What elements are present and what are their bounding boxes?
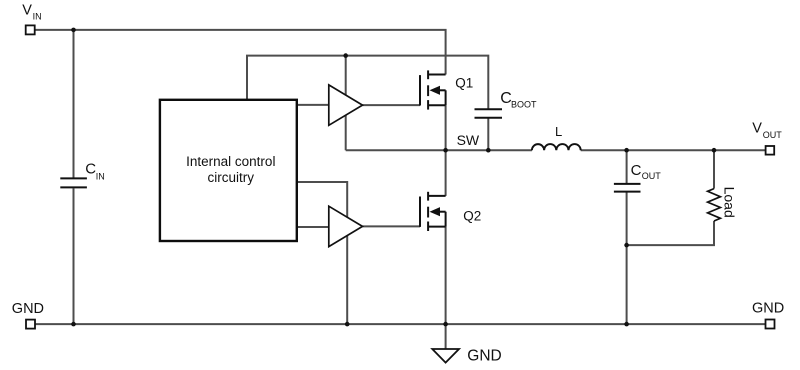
node ground rail driver junction: [345, 322, 350, 327]
svg-text:GND: GND: [12, 301, 44, 317]
wire lower driver input: [297, 226, 329, 228]
svg-text:GND: GND: [752, 301, 784, 317]
gate driver buffer lower: [329, 206, 363, 246]
wire load bottom connect: [627, 221, 714, 245]
transistor Q2: [420, 192, 446, 231]
svg-text:C: C: [631, 162, 642, 179]
svg-text:Q1: Q1: [455, 75, 473, 90]
wire Q2 gate: [363, 225, 421, 227]
capacitor C_IN: [60, 178, 87, 187]
svg-text:GND: GND: [467, 347, 501, 364]
svg-text:IN: IN: [96, 172, 105, 182]
wire top rail VIN: [35, 30, 446, 75]
wire SW rail right: [581, 149, 766, 151]
wire lower driver supply: [297, 182, 347, 324]
wire left rail lower: [73, 188, 75, 324]
svg-text:OUT: OUT: [642, 171, 662, 181]
resistor Load: [708, 189, 721, 221]
wire GND symbol lead: [445, 324, 447, 349]
capacitor C_OUT: [614, 184, 641, 192]
svg-text:circuitry: circuitry: [208, 170, 255, 185]
node ground rail left junction: [71, 322, 76, 327]
node SW junction: [443, 148, 448, 153]
node ground rail C_OUT junction: [624, 322, 629, 327]
gate driver buffer upper: [329, 85, 363, 125]
node C_OUT bottom junction: [624, 243, 629, 248]
svg-text:BOOT: BOOT: [511, 100, 537, 110]
wire Q2 source to ground: [445, 227, 447, 325]
wire Q2 drain to SW: [445, 150, 447, 196]
svg-text:Load: Load: [722, 187, 738, 218]
block internal control circuitry: [160, 100, 297, 241]
svg-text:Q2: Q2: [463, 208, 481, 223]
svg-text:SW: SW: [457, 132, 480, 148]
node boot rail junction: [343, 53, 348, 58]
wire bottom ground rail: [35, 323, 766, 325]
wire C_OUT bottom lead: [626, 193, 628, 325]
wire left rail upper: [73, 30, 75, 178]
transistor Q1: [420, 70, 446, 109]
terminal GND right: [766, 320, 775, 329]
svg-text:IN: IN: [33, 11, 42, 21]
wire C_OUT top lead: [626, 150, 628, 183]
wire Q1 gate: [363, 104, 421, 106]
wire C_BOOT lower lead: [487, 118, 489, 151]
wire upper driver input: [297, 104, 329, 106]
capacitor C_BOOT: [475, 109, 503, 118]
wire bootstrap rail: [247, 56, 488, 110]
wire SW rail left: [346, 149, 532, 151]
wire upper driver supply: [345, 56, 347, 151]
inductor L: [532, 144, 581, 150]
svg-text:Internal control: Internal control: [186, 154, 275, 169]
node ground rail Q2 junction: [443, 322, 448, 327]
wire load top lead: [713, 150, 715, 188]
svg-text:V: V: [752, 121, 762, 137]
node load top junction: [712, 148, 717, 153]
svg-text:L: L: [555, 124, 562, 139]
wire Q1 source to SW: [445, 105, 447, 150]
svg-text:OUT: OUT: [763, 130, 783, 140]
terminal GND left: [26, 320, 35, 329]
terminal VIN: [26, 25, 35, 34]
terminal VOUT: [766, 146, 775, 155]
node VIN junction: [71, 28, 76, 33]
svg-text:V: V: [22, 2, 32, 18]
ground symbol: [432, 349, 459, 363]
svg-text:C: C: [85, 161, 96, 178]
node C_OUT top junction: [624, 148, 629, 153]
node C_BOOT-SW junction: [486, 148, 491, 153]
